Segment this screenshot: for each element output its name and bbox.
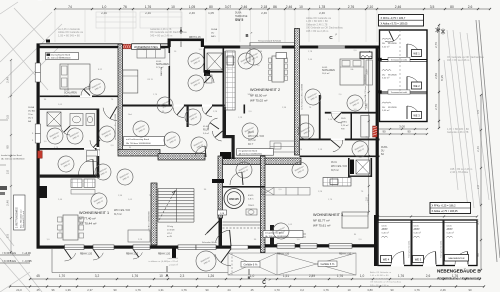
svg-text:1,05 = 80 345 = 80: 1,05 = 80 345 = 80: [370, 275, 389, 277]
svg-text:30,5 m²: 30,5 m²: [331, 169, 339, 172]
svg-text:45: 45: [36, 288, 40, 292]
terrace edge top (unit 2): [250, 43, 295, 63]
svg-text:DUBA: DUBA: [235, 12, 242, 15]
block bottom dimension chain: [376, 124, 428, 135]
wall center vertical lower: [223, 107, 227, 136]
unit1 bath wc: [86, 114, 95, 126]
wardrobe unit3: [361, 115, 369, 137]
svg-text:Gefälle 6 %: Gefälle 6 %: [321, 262, 336, 266]
shower unit1: [47, 112, 61, 126]
svg-text:WOHNEINHEIT 1: WOHNEINHEIT 1: [79, 211, 109, 215]
hatched cross wall band mid: [158, 154, 205, 161]
svg-text:5: 5: [32, 133, 34, 135]
storage room 3 WE box: [412, 112, 422, 119]
svg-text:NF 77,40 m²: NF 77,40 m²: [79, 217, 96, 221]
annotation box unit A top: [46, 53, 79, 60]
svg-text:2,26: 2,26: [138, 239, 143, 241]
svg-text:3,2: 3,2: [95, 274, 100, 278]
exterior wall right lower: [374, 215, 377, 266]
hatched cross wall band west: [118, 150, 160, 157]
svg-text:WF 70,44 m²: WF 70,44 m²: [79, 222, 96, 226]
svg-text:2,46: 2,46: [261, 11, 267, 15]
exterior wall bottom unit1: [37, 246, 169, 249]
dashed line in block: [399, 30, 401, 59]
svg-text:2,46: 2,46: [308, 59, 313, 61]
svg-text:UMKL: UMKL: [341, 121, 348, 123]
svg-text:FLUR: FLUR: [203, 129, 209, 131]
svg-text:Attika OK Gelande ca: Attika OK Gelande ca: [370, 271, 392, 274]
svg-text:90: 90: [390, 288, 394, 292]
faint site diagonals right side: [444, 30, 489, 208]
svg-text:80: 80: [6, 145, 10, 149]
unit1 kitchen appliances: [71, 179, 82, 188]
svg-text:RBHH 1,50: RBHH 1,50: [277, 253, 290, 256]
svg-text:JA: 700 bzw 100/800/000: JA: 700 bzw 100/800/000: [126, 142, 151, 145]
svg-text:WC/BDD: WC/BDD: [388, 107, 397, 109]
svg-text:80: 80: [354, 234, 357, 236]
wc fixture stairwell: [246, 209, 257, 215]
svg-text:2,76: 2,76: [434, 42, 438, 48]
svg-text:2,0: 2,0: [278, 189, 282, 191]
svg-text:ABST: ABST: [382, 228, 389, 231]
svg-text:5,00 m²: 5,00 m²: [382, 109, 390, 112]
svg-text:Terrassenrand Schmale: Terrassenrand Schmale: [368, 193, 370, 215]
thin line kitchen divider center: [224, 51, 226, 110]
svg-text:ES15: ES15: [248, 195, 254, 197]
svg-text:2,46: 2,46: [145, 11, 151, 15]
svg-text:3,10 m²: 3,10 m²: [341, 124, 349, 127]
svg-text:mit ged. Band JA: 150 bzw 100/: mit ged. Band JA: 150 bzw 100/800/000: [364, 74, 367, 110]
patio door arc 1: [65, 249, 72, 259]
svg-text:TRH 1: TRH 1: [248, 205, 255, 207]
landing lines: [223, 221, 261, 223]
door gap unit3 north: [331, 112, 342, 114]
svg-text:SCHLAFEN: SCHLAFEN: [156, 63, 169, 66]
svg-text:1,0: 1,0: [59, 231, 63, 233]
window left 1: [35, 63, 40, 82]
top dimension chain: [54, 5, 491, 28]
svg-text:↗: ↗: [335, 33, 338, 37]
svg-text:DU: DU: [382, 43, 386, 45]
svg-text:BA 5: BA 5: [211, 35, 216, 38]
band door gap arc: [204, 146, 207, 157]
svg-text:1,76: 1,76: [145, 5, 152, 9]
svg-text:NEBENGEBÄUDE B: NEBENGEBÄUDE B: [437, 268, 481, 274]
svg-text:≈ K FFB EG: ≈ K FFB EG: [2, 259, 16, 263]
svg-text:Schmied DYO m ü: Schmied DYO m ü: [23, 210, 25, 228]
svg-text:RBHH 1,50: RBHH 1,50: [126, 253, 139, 256]
door unit3 north: [334, 112, 342, 120]
unit3 mid wall: [300, 139, 380, 141]
planter row unit3 hall: [262, 188, 310, 196]
svg-text:2,18: 2,18: [261, 5, 268, 9]
hausmeister box: [445, 255, 469, 262]
window boxes bottom unit1: [65, 245, 85, 250]
svg-text:Trennwand mit verkl.: Trennwand mit verkl.: [440, 240, 443, 258]
vertical label 2 rettungsweg: [14, 195, 26, 230]
svg-text:2,6: 2,6: [6, 234, 10, 239]
unit1 corridor door arc top: [110, 107, 117, 119]
svg-text:1,0: 1,0: [360, 274, 365, 278]
terrace edge left below unit1: [52, 249, 228, 273]
svg-text:5,00 m²: 5,00 m²: [382, 77, 390, 80]
svg-text:1,76: 1,76: [323, 288, 329, 292]
svg-text:Gelande 2,46 1,78: Gelande 2,46 1,78: [447, 130, 469, 134]
svg-text:DU: DU: [382, 74, 386, 76]
exterior wall bottom stair area: [168, 246, 265, 249]
svg-text:WE 4: WE 4: [383, 257, 390, 261]
entrance door arc big: [230, 230, 231, 246]
svg-text:96: 96: [51, 288, 55, 292]
door gap unit3 mid: [331, 139, 345, 141]
Gefaelle label box 2: [318, 261, 337, 267]
svg-text:1,78: 1,78: [319, 5, 326, 9]
sofa unit3: [342, 212, 368, 228]
svg-text:DU 5: DU 5: [28, 117, 34, 119]
svg-text:1,0: 1,0: [43, 141, 47, 143]
svg-text:≈ K FFB EG: ≈ K FFB EG: [2, 251, 16, 255]
door unit A room: [84, 89, 90, 95]
storage block top door arc: [389, 31, 394, 41]
hatched cross wall band east: [223, 158, 302, 165]
storage block divider 2: [380, 91, 428, 93]
unit3 living west wall: [300, 156, 380, 158]
annex top dimension ticks: [377, 215, 478, 217]
annotation box mid-center: [237, 149, 274, 156]
svg-text:DUBA: DUBA: [381, 146, 388, 149]
svg-text:NF 82,50 m²: NF 82,50 m²: [250, 94, 267, 98]
partition center unit vertical: [169, 47, 171, 105]
svg-text:2,46: 2,46: [6, 200, 10, 206]
svg-text:1,05: 1,05: [208, 11, 214, 15]
svg-text:in öffnen ca. (0,445)m × 22 m²: in öffnen ca. (0,445)m × 22 m²: [149, 260, 179, 263]
svg-text:handschriftlicher Band: handschriftlicher Band: [1, 154, 22, 157]
bath center walls: [204, 49, 206, 73]
svg-text:3,2: 3,2: [300, 288, 304, 292]
window boxes bottom unit3: [277, 244, 295, 249]
svg-text:2,10: 2,10: [367, 5, 374, 9]
svg-text:1,0: 1,0: [296, 239, 300, 241]
shower unit3: [356, 160, 370, 174]
flur door arc 2: [206, 107, 212, 115]
unit1 corridor wall: [97, 109, 100, 177]
svg-text:2,37: 2,37: [87, 288, 93, 292]
svg-text:2,8 m: 2,8 m: [248, 199, 254, 201]
svg-text:ABST: ABST: [414, 228, 421, 231]
entrance door gap: [231, 245, 248, 249]
svg-text:2,46 m: 2,46 m: [57, 57, 63, 59]
svg-text:BA: BA: [351, 68, 354, 71]
svg-text:2,6: 2,6: [468, 5, 473, 9]
svg-text:31,5 m²: 31,5 m²: [114, 213, 122, 216]
svg-text:Trennwand mit verkl.: Trennwand mit verkl.: [391, 59, 408, 62]
svg-text:2,46: 2,46: [440, 288, 446, 292]
svg-text:WE 5: WE 5: [415, 257, 422, 261]
svg-text:1,70: 1,70: [274, 288, 280, 292]
hatched stairwell east wall: [261, 156, 266, 253]
svg-text:SCHLAFEN: SCHLAFEN: [64, 92, 77, 95]
stairwell west wall lower black: [219, 218, 223, 247]
stamp circles: [86, 76, 108, 98]
faint table boxes top: [96, 12, 182, 28]
vertical dim between building and block: [364, 51, 370, 213]
svg-text:Trennwand mit verkl.: Trennwand mit verkl.: [391, 91, 408, 94]
unit1 bath bottom wall: [40, 148, 97, 150]
black marker above wall corner: [46, 40, 50, 43]
shower center unit: [207, 53, 223, 70]
svg-text:DUBA: DUBA: [28, 106, 35, 109]
svg-text:1,76: 1,76: [181, 288, 187, 292]
svg-text:2,0: 2,0: [476, 185, 480, 190]
svg-text:2,0: 2,0: [6, 170, 10, 175]
svg-text:WO / ES / KO: WO / ES / KO: [114, 208, 130, 212]
svg-text:DU: DU: [381, 151, 385, 153]
svg-text:90: 90: [205, 288, 209, 292]
svg-text:5,45 m²: 5,45 m²: [447, 232, 455, 235]
svg-text:1,26: 1,26: [318, 191, 323, 193]
svg-text:2,3: 2,3: [180, 274, 185, 278]
svg-text:1,76: 1,76: [328, 199, 333, 201]
svg-text:WASCHM: WASCHM: [160, 67, 163, 76]
svg-text:1,0: 1,0: [257, 65, 261, 67]
svg-text:RBHH 1,50: RBHH 1,50: [80, 253, 93, 256]
WASSERBAND STEIG label box: [132, 44, 161, 50]
unit3 dus-umkl inner wall: [351, 112, 353, 140]
unit1 middle room boxes: [87, 151, 98, 162]
annex top wall inner line: [378, 221, 477, 223]
exterior wall right: [376, 46, 379, 221]
svg-text:RBHH 1,05: RBHH 1,05: [189, 37, 201, 39]
svg-text:1,05: 1,05: [128, 199, 133, 201]
svg-text:X FFKo -0,75 = 184,7: X FFKo -0,75 = 184,7: [381, 16, 406, 20]
svg-text:Gelande 2,46 1,78: Gelande 2,46 1,78: [370, 278, 389, 280]
black terrace side wall: [172, 246, 176, 258]
svg-text:1,26: 1,26: [208, 274, 214, 278]
corner pillar left: [37, 186, 48, 198]
svg-text:Schmaler Windf.: Schmaler Windf.: [202, 241, 218, 244]
svg-text:45: 45: [36, 274, 40, 278]
annotation box unit3 bottom: [263, 231, 303, 238]
hatched party wall 2 (with chimney above roof): [295, 29, 300, 156]
partition center unit horizontal: [123, 105, 226, 107]
annex divider 2: [443, 220, 445, 266]
spiral element double circle: [224, 189, 244, 209]
left vertical dimension chain: [6, 59, 13, 253]
svg-text:1,28: 1,28: [238, 117, 243, 119]
stamp below entrance: [192, 247, 219, 274]
svg-text:Terrassenrand Schmale: Terrassenrand Schmale: [258, 39, 282, 42]
wardrobe center unit: [137, 49, 165, 59]
svg-text:2,0: 2,0: [358, 239, 362, 241]
black shaft center: [204, 70, 210, 76]
svg-text:B: B: [245, 33, 248, 38]
svg-text:2,46: 2,46: [6, 77, 10, 83]
svg-text:WOHNEINHEIT 3: WOHNEINHEIT 3: [313, 213, 343, 217]
svg-text:79 m: 79 m: [28, 114, 33, 116]
svg-text:RBHH 1,50: RBHH 1,50: [339, 253, 352, 256]
storage block left tick 1: [379, 58, 382, 61]
svg-text:BA: BA: [381, 153, 385, 156]
svg-text:HAUSMEISTER: HAUSMEISTER: [449, 257, 465, 260]
faint site-plan diagonals top-left: [0, 2, 62, 98]
svg-text:2,76: 2,76: [434, 104, 438, 110]
svg-text:1,76: 1,76: [132, 274, 138, 278]
tree symbols: [436, 27, 440, 33]
svg-text:2,46: 2,46: [286, 5, 293, 9]
annex WE5 box: [413, 256, 424, 263]
annotation box mid-left: [124, 137, 165, 146]
svg-text:WC/BDD: WC/BDD: [388, 43, 397, 45]
svg-text:345 = 80 ca 2,46 m: 345 = 80 ca 2,46 m: [370, 285, 389, 287]
svg-text:90: 90: [113, 288, 117, 292]
svg-text:76: 76: [361, 191, 364, 193]
legend box right-mid: [430, 203, 471, 214]
bed unit2 east: [340, 59, 364, 85]
hatched party wall 1: [118, 44, 123, 151]
svg-text:mit Dachlausstieg Band: mit Dachlausstieg Band: [126, 138, 150, 141]
kitchen unit3: [323, 178, 351, 187]
svg-text:10: 10: [171, 5, 175, 9]
svg-text:NF 82,77 m²: NF 82,77 m²: [313, 219, 330, 223]
corridor floor lines unit3 hall: [265, 233, 306, 235]
svg-text:24: 24: [227, 288, 231, 292]
partition unit1 horizontal: [40, 96, 118, 98]
svg-text:2,0: 2,0: [339, 94, 343, 96]
wardrobe unit2: [301, 115, 309, 137]
black pillar at band junction: [220, 152, 231, 159]
svg-text:3,5: 3,5: [476, 110, 480, 115]
right vertical dimension chain near block: [434, 24, 444, 129]
annex outline: [378, 220, 477, 266]
svg-text:3,5: 3,5: [430, 5, 435, 9]
svg-text:5,45 m²: 5,45 m²: [414, 232, 422, 235]
legend box top-right: [379, 15, 424, 27]
svg-text:24,0: 24,0: [16, 288, 22, 292]
svg-text:C: C: [329, 35, 333, 41]
svg-text:345 = 80 ca 2,46 m: 345 = 80 ca 2,46 m: [306, 29, 328, 33]
svg-text:5,45 m²: 5,45 m²: [382, 232, 390, 235]
faint extension lines over top margin: [55, 10, 377, 42]
svg-text:↗: ↗: [250, 31, 253, 35]
svg-text:2,6: 2,6: [426, 274, 431, 278]
svg-text:3,00: 3,00: [399, 124, 405, 128]
svg-text:1,05: 1,05: [288, 224, 293, 226]
svg-text:2,46: 2,46: [319, 11, 325, 15]
svg-text:DUS: DUS: [341, 118, 346, 120]
svg-text:B 12: B 12: [98, 69, 103, 71]
bed unit A: [60, 64, 90, 89]
exterior wall bottom unit3: [265, 244, 377, 247]
bottom dimension chain 2: [9, 285, 485, 292]
exterior wall left: [37, 44, 40, 249]
wall from stair to unit3: [223, 186, 266, 188]
storage room 1 WE box: [412, 50, 422, 57]
stair arrow: [172, 191, 176, 194]
svg-text:36: 36: [254, 239, 257, 241]
sofa unit1: [128, 230, 150, 242]
svg-text:2,46 1,78 Attika: 2,46 1,78 Attika: [450, 170, 468, 174]
svg-text:1,0: 1,0: [198, 49, 202, 51]
svg-text:17,5 m²: 17,5 m²: [64, 95, 72, 98]
svg-text:2,18: 2,18: [318, 149, 323, 151]
svg-text:WF 75,02 m²: WF 75,02 m²: [250, 99, 267, 103]
svg-text:Abstellräume / Kellerersatz: Abstellräume / Kellerersatz: [437, 277, 481, 281]
svg-text:76: 76: [123, 5, 127, 9]
wc center: [206, 75, 212, 83]
svg-text:DU: DU: [211, 32, 215, 34]
door unit3 mid: [331, 140, 340, 148]
bed center unit: [123, 70, 138, 93]
svg-text:1,05 = 80 345 = 80: 1,05 = 80 345 = 80: [58, 33, 80, 37]
table unit1: [63, 215, 78, 240]
svg-text:OK Gelande ca OK Dachaufbau: OK Gelande ca OK Dachaufbau: [370, 282, 402, 284]
svg-text:1,05: 1,05: [58, 104, 63, 106]
svg-text:1,36: 1,36: [282, 107, 287, 109]
svg-text:10: 10: [174, 51, 177, 53]
svg-text:B: B: [248, 276, 251, 280]
svg-text:16,0 m²: 16,0 m²: [322, 72, 330, 75]
bottom dimension chain 1: [29, 274, 481, 280]
svg-text:1,70: 1,70: [59, 274, 65, 278]
svg-text:P,N: P,N: [341, 128, 345, 130]
svg-text:10: 10: [299, 5, 303, 9]
svg-text:EA + Hubsteital und: EA + Hubsteital und: [20, 209, 23, 228]
unit1 bath fixtures: basin counter: [70, 114, 83, 126]
svg-text:1,76: 1,76: [414, 288, 420, 292]
dining table unit2: [272, 56, 284, 82]
windfang slanted door leaf: [207, 219, 221, 233]
svg-text:2,46: 2,46: [328, 119, 333, 121]
patio door arc 3: [133, 249, 139, 257]
unit2 south wall stub: [244, 105, 246, 114]
svg-text:WC/BDD: WC/BDD: [388, 74, 397, 76]
svg-text:1,05: 1,05: [189, 5, 196, 9]
svg-text:2,46: 2,46: [189, 11, 195, 15]
unit2 kitchen counter: [270, 141, 299, 152]
svg-text:C: C: [262, 280, 266, 286]
svg-text:WE 2: WE 2: [413, 84, 420, 88]
svg-text:80: 80: [209, 5, 213, 9]
wardrobe right of bed: [366, 60, 373, 85]
svg-text:DU BA: DU BA: [28, 109, 35, 112]
svg-text:1,76: 1,76: [153, 94, 158, 96]
svg-text:76: 76: [309, 107, 312, 109]
svg-text:90: 90: [382, 130, 386, 134]
svg-text:5: 5: [32, 140, 34, 142]
door center wall: [210, 123, 219, 129]
annex bottom door gaps: [391, 263, 404, 267]
svg-text:1,36: 1,36: [118, 195, 123, 197]
storage block outline: [380, 30, 428, 122]
svg-text:DUBA: DUBA: [211, 28, 218, 31]
door gap center unit vertical: [169, 53, 171, 66]
Gefaelle label box 1: [241, 262, 260, 268]
svg-text:36: 36: [44, 99, 47, 101]
left margin small marks: [0, 119, 8, 121]
svg-text:3,80: 3,80: [367, 288, 373, 292]
sill box 2 below top wall (dark): [360, 52, 372, 59]
svg-text:345 = 80 ca 2,46 m: 345 = 80 ca 2,46 m: [150, 33, 172, 37]
svg-text:2,46: 2,46: [476, 146, 480, 152]
svg-text:3,5: 3,5: [6, 115, 10, 120]
svg-text:m 45: m 45: [167, 236, 173, 238]
svg-text:1,0: 1,0: [46, 239, 50, 241]
window boxes stair area: [178, 245, 196, 250]
door unit A bath: [64, 126, 70, 132]
svg-text:90: 90: [468, 288, 472, 292]
svg-text:1,0: 1,0: [102, 5, 107, 9]
svg-text:X FFKo -0,25 = 186,2: X FFKo -0,25 = 186,2: [432, 205, 457, 208]
